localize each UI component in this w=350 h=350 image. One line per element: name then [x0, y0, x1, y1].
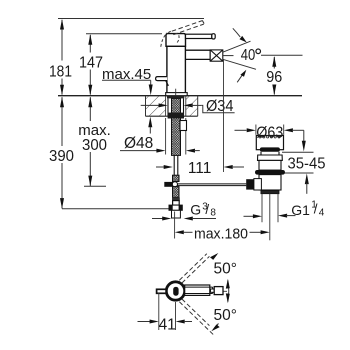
top view spout stub [157, 289, 167, 293]
svg-text:390: 390 [49, 148, 74, 165]
svg-text:96: 96 [266, 69, 282, 86]
lower threaded shank [173, 187, 180, 198]
svg-text:8: 8 [210, 207, 216, 218]
svg-text:41: 41 [159, 316, 176, 333]
connector bands [172, 197, 180, 205]
waste O-ring [255, 170, 285, 175]
dimension 147 [79, 34, 162, 96]
waste neck [261, 152, 279, 155]
top view lever centerline [185, 290, 227, 292]
dimension 96 [266, 56, 282, 95]
svg-text:111: 111 [188, 160, 212, 177]
aerator with cross [210, 50, 223, 61]
waste lower body [259, 175, 281, 190]
svg-text:181: 181 [49, 63, 72, 80]
svg-text:50°: 50° [214, 260, 237, 277]
arc arrow up [210, 253, 218, 260]
dimension diameter63 [235, 124, 304, 141]
top view lever end cap [214, 287, 223, 295]
dimension diameter34 leader [141, 98, 235, 115]
dimension diameter48 [120, 118, 200, 155]
phantom dome dashes [161, 30, 179, 47]
phantom lever up 50 [179, 254, 209, 283]
dimension max180 [175, 212, 270, 243]
G3/8 arrow pair [152, 217, 216, 221]
horizontal pop-up rod to waste [178, 184, 247, 186]
svg-text:Ø63: Ø63 [256, 124, 283, 141]
svg-text:300: 300 [82, 137, 107, 154]
waste pop-up knob [256, 136, 283, 150]
waste dark collar [260, 147, 280, 151]
svg-text:/: / [205, 202, 209, 217]
top view circle body [166, 282, 184, 300]
svg-text:147: 147 [79, 54, 103, 71]
extension line top lever-tip level [58, 18, 204, 20]
waste flange [258, 155, 283, 160]
top view lever shaft [185, 285, 215, 295]
pull rod below shank [173, 155, 180, 181]
supply tube end [172, 210, 181, 218]
svg-text:Ø34: Ø34 [206, 98, 234, 115]
waste side port [246, 179, 261, 190]
swing arc with arrowheads [226, 279, 230, 303]
svg-text:50°: 50° [214, 307, 237, 324]
svg-text:4: 4 [319, 207, 325, 218]
threaded shank through deck [168, 98, 184, 155]
dimension 41 [138, 293, 193, 334]
waste bottom band [261, 191, 279, 194]
spout [185, 50, 210, 61]
arc arrow down [211, 324, 219, 332]
dimension 35-45 [282, 130, 326, 194]
dimension 390 [49, 97, 169, 209]
phantom raised lever dashed [172, 20, 204, 34]
rod clamp and ball joint [164, 182, 177, 187]
dimension max300 [78, 97, 111, 187]
body centerline above deck [175, 89, 177, 96]
phantom lever down 50 [179, 299, 213, 335]
backnut under deck [168, 113, 184, 119]
dimension 111 [156, 59, 244, 177]
faucet handle dome [166, 34, 186, 47]
svg-text:35-45: 35-45 [288, 155, 326, 172]
pop-up knob at rear [156, 77, 169, 86]
dimension 181 [49, 19, 72, 96]
rod guide nut [180, 121, 187, 131]
40 degree swivel rays [223, 28, 261, 82]
waste upper body [259, 160, 281, 170]
waste extension lines [262, 194, 278, 241]
G1 1/4 label with arrows [244, 199, 325, 218]
G3/8 nut [169, 205, 182, 210]
svg-text:G: G [190, 202, 201, 218]
lever horizontal [186, 34, 216, 39]
faucet body column [166, 46, 188, 98]
outlet level extension line [261, 54, 303, 56]
svg-text:40: 40 [241, 47, 256, 64]
G3/8 label [190, 201, 216, 218]
mounting deck slab with hatch [58, 96, 302, 117]
svg-text:/: / [314, 201, 318, 216]
svg-text:Ø48: Ø48 [124, 135, 153, 152]
svg-text:max.180: max.180 [194, 226, 248, 243]
dimension max45 leader [102, 66, 153, 134]
